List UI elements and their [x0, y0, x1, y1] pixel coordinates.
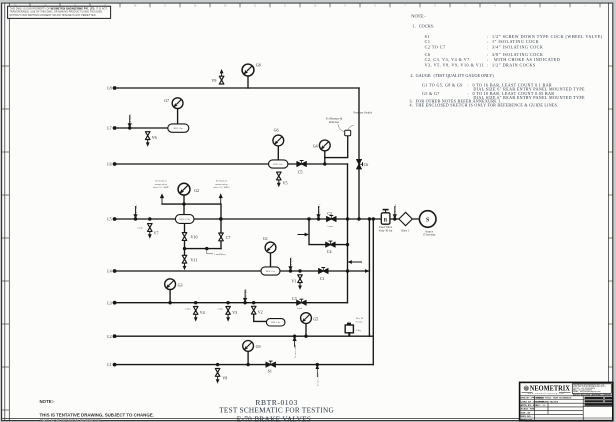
- svg-text:4. THE ENCLOSED SKETCH IS ONL: 4. THE ENCLOSED SKETCH IS ONLY FOR REFER…: [410, 102, 559, 107]
- svg-text:L2: L2: [107, 334, 111, 339]
- flow arrow right into vertical C: [355, 269, 369, 273]
- junction C7 vertical crossing: [219, 217, 222, 220]
- junction choke connection near C2: [317, 217, 320, 220]
- svg-text:15 bar max: 15 bar max: [422, 233, 436, 237]
- svg-text:V7: V7: [154, 230, 159, 235]
- flow arrow left on vertical A: [348, 260, 363, 264]
- svg-text:G1: G1: [263, 236, 268, 241]
- svg-text::: :: [487, 62, 489, 67]
- wire line L6 horizontal: [114, 163, 348, 165]
- wire main supply line L5: [114, 218, 420, 220]
- junction vertical B at main line: [357, 217, 360, 220]
- svg-text:E-70 BRAKE VALVES: E-70 BRAKE VALVES: [237, 416, 312, 422]
- junction V2 drop on L3: [252, 301, 255, 304]
- valve V7 drain on main line: [148, 224, 153, 239]
- svg-text:C4: C4: [327, 249, 332, 254]
- valve V2 on L3: [251, 306, 256, 314]
- connection stub below L1: [315, 365, 319, 386]
- wire safety-valve header bar: [162, 203, 221, 205]
- svg-text:SIZE : A3: SIZE : A3: [521, 411, 531, 414]
- svg-text:1/2” SCREW DOWN TYPE COCK (WH: 1/2” SCREW DOWN TYPE COCK (WHEEL VALVE): [492, 34, 603, 39]
- cock C5 on L6: [297, 161, 307, 167]
- cock C2 on main line: [326, 216, 336, 222]
- junction G2 stem at safety bar: [182, 202, 185, 205]
- svg-text:valve CG ‘SMB’: valve CG ‘SMB’: [213, 186, 230, 189]
- svg-text:V5: V5: [283, 180, 288, 185]
- junction connection on L1: [316, 363, 319, 366]
- junction reservoir drain on main line: [183, 218, 185, 220]
- svg-text:G5 & G7: G5 & G7: [422, 91, 440, 96]
- svg-text:C2 TO C7: C2 TO C7: [425, 45, 446, 50]
- valve V11: [182, 255, 187, 270]
- svg-text:1 mm: 1 mm: [217, 307, 223, 310]
- svg-text:V3: V3: [232, 310, 237, 315]
- svg-text::: :: [487, 52, 489, 57]
- right zone tick marks: [608, 66, 612, 410]
- svg-text:RBTR-0103: RBTR-0103: [521, 419, 533, 421]
- source S circle: [419, 211, 436, 228]
- svg-text:G7: G7: [164, 98, 169, 103]
- svg-text:RES 1 ltr.: RES 1 ltr.: [266, 270, 276, 273]
- svg-text:C3: C3: [292, 296, 297, 301]
- svg-text::: :: [468, 91, 470, 96]
- valve V4 drain on L3: [193, 307, 198, 322]
- svg-text:L5: L5: [107, 217, 111, 222]
- junction V7 drop on main line: [148, 217, 151, 220]
- node L3 start dot: [113, 301, 117, 305]
- svg-text:V10: V10: [191, 235, 198, 240]
- connection arrow after regulator: [393, 204, 397, 219]
- pressure switch box: [338, 125, 354, 136]
- svg-text:G8: G8: [256, 63, 261, 68]
- svg-text:5 mm: 5 mm: [327, 225, 333, 228]
- left margin strip line: [4, 3, 6, 421]
- valve V5 drain on L6: [277, 172, 282, 187]
- regulator R feed valve: [381, 210, 390, 225]
- wire vertical C from main line to L2: [368, 219, 370, 336]
- junction G3 stem on L3: [168, 301, 171, 304]
- wire V2 elbow to reservoir: [254, 314, 267, 321]
- junction V4 drop on L3: [194, 301, 197, 304]
- node L2 start dot: [113, 334, 117, 338]
- svg-text:1 mm(Max.): 1 mm(Max.): [214, 253, 226, 256]
- node L7 start dot: [113, 126, 117, 130]
- logo website rule right: [559, 392, 571, 394]
- reservoir RES 1 ltr on L6: [269, 160, 288, 168]
- svg-text:3 mm: 3 mm: [137, 227, 143, 230]
- reservoir RES 1 ltr on L7: [168, 124, 189, 132]
- gauge G5: [301, 313, 312, 324]
- junction connection on L2: [293, 335, 296, 338]
- svg-text:G4: G4: [313, 143, 318, 148]
- svg-text:V1: V1: [291, 279, 296, 284]
- wire G8 stem: [247, 76, 249, 88]
- svg-text:1 mm: 1 mm: [297, 307, 303, 310]
- wire line L4 horizontal: [114, 270, 370, 272]
- svg-text:WITH CHOKE AS INDICATED: WITH CHOKE AS INDICATED: [494, 57, 560, 62]
- title block grid: [520, 396, 613, 421]
- wire line L3 horizontal: [114, 302, 348, 304]
- junction connection on L3: [243, 301, 246, 304]
- gauge G9: [243, 341, 254, 352]
- gauge G7: [172, 98, 183, 109]
- svg-text:To m/c inlet: To m/c inlet: [394, 204, 397, 216]
- cock C3 on L3: [297, 299, 307, 305]
- cock C4 bypass: [326, 241, 336, 247]
- wire G6 stem: [277, 146, 279, 160]
- svg-text:V9: V9: [212, 78, 217, 83]
- junction vertical D at main line: [372, 217, 375, 220]
- junction C7 branch at main line: [219, 217, 222, 220]
- svg-text:C6: C6: [425, 52, 431, 57]
- svg-text:C2: C2: [327, 211, 332, 216]
- junction regulator outlet: [393, 217, 396, 220]
- connection arrow on main line near start: [133, 205, 137, 219]
- gauge G3: [165, 279, 176, 290]
- logo icon: [524, 386, 529, 391]
- svg-text:To m/c port: To m/c port: [290, 257, 293, 269]
- svg-text:0.5 bar: 0.5 bar: [356, 320, 363, 323]
- junction connection on L4: [289, 269, 292, 272]
- junction connection on main line: [134, 217, 137, 220]
- svg-text:THIS IS TENTATIVE DRAWING, SUB: THIS IS TENTATIVE DRAWING, SUBJECT TO CH…: [40, 413, 154, 418]
- table middle values: [536, 397, 572, 407]
- node L4 start dot: [113, 269, 117, 273]
- inner border right: [607, 3, 609, 421]
- svg-text:To m/c inlet: To m/c inlet: [135, 205, 138, 217]
- svg-text::: :: [487, 57, 489, 62]
- svg-text:1 mm: 1 mm: [185, 307, 191, 310]
- valve V10: [182, 233, 187, 241]
- svg-text:L7: L7: [107, 126, 111, 131]
- wire vertical B from L8 down through C6 to main line: [358, 88, 360, 219]
- svg-text:G9: G9: [256, 344, 261, 349]
- svg-text:L6: L6: [107, 162, 111, 167]
- svg-text:V11: V11: [191, 257, 198, 262]
- junction vertical A at main line: [346, 217, 349, 220]
- choke leader 1mm Max: [207, 249, 213, 254]
- inner border bottom: [2, 418, 613, 420]
- svg-text:G2: G2: [194, 188, 199, 193]
- junction C4 branch at main line: [307, 217, 310, 220]
- svg-text:5 Kg: 5 Kg: [356, 329, 362, 332]
- wire line L2 horizontal: [114, 335, 374, 337]
- wire G1 stem: [270, 253, 272, 267]
- svg-text:V4: V4: [200, 310, 205, 315]
- svg-text:THIS DWG. IS OUR PROPERTY OF N: THIS DWG. IS OUR PROPERTY OF NEOMETRIX E…: [10, 8, 108, 10]
- junction V3 drop on L3: [226, 301, 229, 304]
- junction V10-V11 tee: [183, 247, 186, 250]
- logo website rule left: [522, 392, 533, 394]
- valve V1 drain on L4: [298, 275, 303, 290]
- connection stub below L2: [293, 336, 297, 358]
- cock S1 on L1: [266, 361, 276, 367]
- svg-text:1. COCKS:: 1. COCKS:: [413, 24, 434, 29]
- proprietary note box top-left: [8, 6, 111, 18]
- cock C6 on vertical B: [356, 159, 362, 169]
- svg-text:V8: V8: [222, 376, 227, 381]
- valve V8 drain on L1: [215, 369, 220, 384]
- gauge G1: [265, 242, 276, 253]
- svg-text:1/2” DRAIN COCKS: 1/2” DRAIN COCKS: [492, 62, 536, 67]
- wire V10 junction to C7 horizontal: [185, 248, 222, 250]
- svg-text:NOTE:-: NOTE:-: [40, 399, 56, 404]
- svg-text:L1: L1: [107, 362, 111, 367]
- wire G5 stem: [305, 323, 307, 336]
- reservoir RES 1 ltr small: [266, 319, 285, 326]
- junction V1 drop on L4: [298, 269, 301, 272]
- wire G2 stem: [183, 195, 185, 214]
- svg-text:V6: V6: [152, 135, 157, 140]
- address box: [572, 384, 611, 394]
- valve V3 drain on L3: [226, 307, 231, 322]
- node L6 start dot: [113, 162, 117, 166]
- svg-text:G6: G6: [274, 128, 279, 133]
- svg-text:body 30 bar: body 30 bar: [379, 228, 393, 232]
- junction choke leader point: [205, 247, 208, 250]
- svg-text::: :: [487, 39, 489, 44]
- wire G9 stem: [247, 351, 249, 365]
- connection arrow on L7 with rotated label: [128, 114, 132, 128]
- wire pressure switch drop: [325, 136, 348, 158]
- svg-text:V2: V2: [258, 310, 263, 315]
- left zone tick marks: [2, 66, 10, 410]
- svg-text:C1: C1: [425, 39, 431, 44]
- svg-text:WITHOUT OUR WRITTEN CONSENT OR: WITHOUT OUR WRITTEN CONSENT OR ANY MISUS…: [10, 14, 97, 17]
- junction vertical C at main line: [368, 217, 371, 220]
- svg-text:C7: C7: [226, 235, 231, 240]
- wire line L8 horizontal: [114, 87, 360, 89]
- connection arrow near C2: [316, 204, 320, 219]
- gauge G8: [242, 64, 254, 76]
- svg-text:To m/c outlet: To m/c outlet: [317, 372, 320, 386]
- table right header: [585, 397, 612, 406]
- svg-text:THIS FOR REVIEW PURPOSE.: THIS FOR REVIEW PURPOSE.: [40, 418, 103, 422]
- svg-text:S1: S1: [268, 369, 272, 374]
- svg-text:R: R: [384, 219, 388, 224]
- node L8 start dot: [113, 86, 117, 90]
- gauge G4: [319, 140, 330, 151]
- reservoir RES 1 ltr on L4: [261, 267, 280, 275]
- svg-text:To m/c port: To m/c port: [129, 114, 132, 126]
- safety valve arrows: [160, 193, 223, 204]
- svg-text:DRAWN TITLE : TEST SCHEMATIC: DRAWN TITLE : TEST SCHEMATIC: [536, 397, 572, 400]
- svg-text:valve CG ‘SMB’: valve CG ‘SMB’: [153, 186, 170, 189]
- top zone tick marks: [30, 3, 600, 7]
- svg-text:3/8” ISOLATING COCK: 3/8” ISOLATING COCK: [492, 52, 543, 57]
- svg-text:EMAIL : info@neometrixgroup: EMAIL : info@neometrixgroup.com: [573, 390, 601, 393]
- svg-text:S1: S1: [425, 34, 430, 39]
- dead weight box: [345, 323, 353, 337]
- svg-text:C5: C5: [298, 169, 303, 174]
- wire G3 stem: [169, 290, 171, 303]
- svg-text::: :: [487, 45, 489, 50]
- svg-text:1” ISOLATING COCK: 1” ISOLATING COCK: [492, 39, 539, 44]
- svg-text:TEST SCHEMATIC FOR TESTING: TEST SCHEMATIC FOR TESTING: [219, 407, 334, 415]
- svg-text:RES 1 ltr.: RES 1 ltr.: [274, 163, 284, 166]
- wire G7 stem: [177, 109, 179, 124]
- junction V8 drop on L1: [216, 363, 219, 366]
- svg-text:Pressure Switch: Pressure Switch: [354, 111, 373, 115]
- valve V6 drain on L7: [145, 132, 150, 147]
- svg-text:2. GAUGE: (TEST QUALITY GAUG: 2. GAUGE: (TEST QUALITY GAUGE ONLY): [410, 73, 494, 78]
- junction connection on L7: [128, 126, 131, 129]
- valve V9 vent on L8: [219, 69, 224, 84]
- bottom left tentative note: [40, 399, 154, 422]
- svg-text:G3: G3: [178, 282, 183, 287]
- gauge G2: [178, 183, 190, 195]
- valve C7 choke: [219, 233, 224, 241]
- svg-text:L4: L4: [107, 269, 111, 274]
- svg-text:NOTE:-: NOTE:-: [411, 13, 426, 18]
- top zone numbers: [14, 5, 587, 8]
- svg-text:RES 1 ltr.: RES 1 ltr.: [174, 127, 184, 130]
- svg-text:5 mm(Max.): 5 mm(Max.): [318, 204, 321, 217]
- connection arrow on L4: [288, 257, 292, 271]
- node L1 start dot: [113, 363, 117, 367]
- svg-text:3/4” ISOLATING COCK: 3/4” ISOLATING COCK: [492, 45, 543, 50]
- svg-text:C6: C6: [364, 162, 369, 167]
- wire line L1 horizontal: [114, 364, 374, 366]
- wire line L7 horizontal: [114, 127, 170, 129]
- title block outer frame: [520, 382, 613, 421]
- cock C1 on L4: [318, 268, 328, 274]
- junction G5 stem on L2: [304, 335, 307, 338]
- wire vertical D from main line to L1: [372, 219, 374, 365]
- svg-text:w w w . n e o m e t r i x g r: w w w . n e o m e t r i x g r o u p . c …: [528, 392, 564, 395]
- gauge list: [422, 82, 585, 99]
- reservoir RES 1.5 ltr on main line: [175, 215, 194, 224]
- svg-text:E-70 BRAKE VALVES: E-70 BRAKE VALVES: [536, 400, 559, 403]
- svg-text:SCALE : NTS: SCALE : NTS: [521, 408, 535, 411]
- svg-text:RES 1.5 ltr: RES 1.5 ltr: [179, 218, 190, 221]
- svg-text:filter 1: filter 1: [401, 229, 409, 233]
- wire C7 branch vertical: [220, 204, 222, 249]
- svg-text:DWG. NO. :: DWG. NO. :: [521, 416, 533, 418]
- junction G9 stem on L1: [246, 363, 249, 366]
- filter diamond: [399, 212, 412, 225]
- junction L4 end at vertical A: [346, 269, 349, 272]
- inner border left: [8, 3, 10, 421]
- svg-text:G5: G5: [313, 317, 318, 322]
- junction C4 return at vertical A: [346, 243, 349, 246]
- svg-text:L8: L8: [107, 86, 111, 91]
- svg-text:L3: L3: [107, 300, 111, 305]
- wire G4 stem: [324, 151, 326, 165]
- drawing title RBTR-0103: [219, 398, 334, 422]
- junction G4 stem on L6: [323, 162, 326, 165]
- flow arrow into C4 branch: [298, 233, 310, 237]
- svg-text:RES 1 ltr.: RES 1 ltr.: [271, 321, 281, 324]
- connection arrow on L3: [243, 289, 247, 303]
- wire vertical A from L6 down to L3: [347, 164, 349, 303]
- svg-text:TRANSFERABLE. USE OF THIS DWG.: TRANSFERABLE. USE OF THIS DWG. OR MAKING…: [10, 11, 104, 14]
- wire reservoir drain vertical V10 V11: [184, 224, 186, 264]
- node L5 start dot: [113, 217, 117, 221]
- svg-text::: :: [468, 82, 470, 87]
- gauge G6: [273, 135, 284, 146]
- svg-text::: :: [487, 34, 489, 39]
- wire C4 bypass drop: [309, 219, 348, 245]
- svg-text:C1: C1: [320, 276, 325, 281]
- notes block heading: [410, 13, 603, 107]
- svg-text:REV. : 00: REV. : 00: [536, 405, 546, 407]
- table left column labels: [521, 397, 545, 422]
- svg-text:To m/c port: To m/c port: [244, 289, 247, 301]
- svg-text:To m/c outlet: To m/c outlet: [294, 344, 297, 358]
- cocks list: [425, 34, 603, 69]
- svg-text:NEOMETRIX: NEOMETRIX: [530, 385, 570, 393]
- svg-text:Indicator: Indicator: [329, 120, 339, 124]
